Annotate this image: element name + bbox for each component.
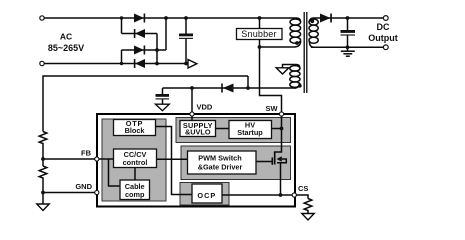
svg-text:CS: CS <box>298 184 308 193</box>
svg-text:GND: GND <box>75 182 92 191</box>
svg-text:Startup: Startup <box>237 128 263 137</box>
svg-text:Block: Block <box>125 126 146 135</box>
svg-text:&UVLO: &UVLO <box>185 128 211 137</box>
svg-text:Output: Output <box>368 33 398 43</box>
svg-text:VDD: VDD <box>197 103 213 112</box>
svg-text:SW: SW <box>266 104 279 113</box>
svg-text:DC: DC <box>377 22 390 32</box>
svg-text:AC: AC <box>60 32 72 42</box>
svg-text:FB: FB <box>81 149 92 158</box>
svg-text:OCP: OCP <box>197 191 216 200</box>
svg-text:&Gate Driver: &Gate Driver <box>198 162 243 171</box>
svg-text:comp: comp <box>125 190 145 199</box>
svg-text:control: control <box>123 158 148 167</box>
svg-text:Snubber: Snubber <box>241 29 276 39</box>
svg-text:85~265V: 85~265V <box>48 43 84 53</box>
